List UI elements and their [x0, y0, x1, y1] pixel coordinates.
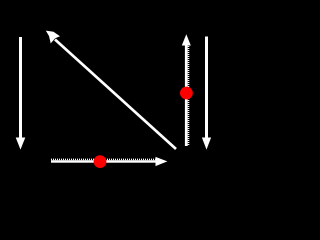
left down arrow	[16, 37, 26, 150]
far right down arrow	[202, 37, 211, 150]
right ticked up arrow (points up)	[182, 34, 191, 146]
red handle dot on horizontal arrow	[94, 155, 107, 168]
red handle dot on up arrow	[180, 87, 193, 100]
diagonal arrow (points up-left)	[46, 31, 176, 149]
bottom horizontal ticked arrow (points right)	[51, 157, 167, 166]
